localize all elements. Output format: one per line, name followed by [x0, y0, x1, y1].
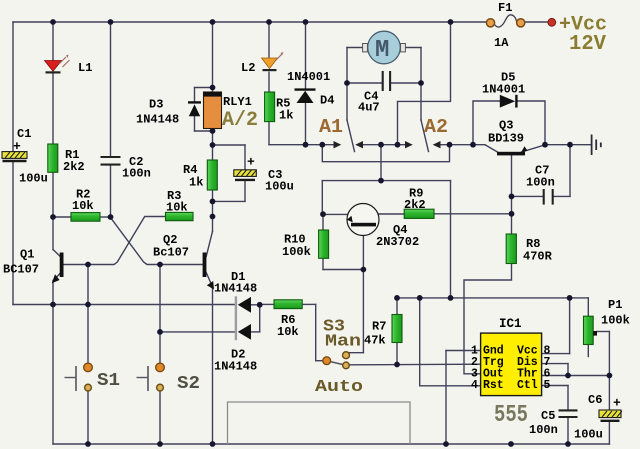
diode D2 [214, 324, 257, 374]
junction dots left section [50, 214, 263, 335]
wire R9 leads [379, 213, 512, 215]
wire Q3 collector branch x=511.5 [511, 156, 513, 234]
svg-text:C6: C6 [588, 393, 602, 407]
junction dots 555 area [394, 362, 612, 379]
svg-text:IC1: IC1 [499, 317, 522, 331]
pin labels 555 right [517, 345, 551, 392]
wire D1 anode lead [251, 303, 274, 305]
wire +12V top rail [13, 21, 549, 23]
wire C3 branch [213, 145, 246, 201]
wire cross-coupling to Q2 base [111, 218, 203, 265]
wire S1 branch x=88 [87, 265, 89, 445]
wire 555 pin4 reset branch [420, 298, 481, 386]
svg-text:+: + [247, 155, 255, 170]
svg-text:47k: 47k [364, 334, 386, 348]
wire 555 pin6 threshold line [542, 375, 610, 377]
wire Q1 emitter to ground rail [53, 273, 61, 445]
resistor R5 [265, 92, 294, 123]
svg-text:Ctl: Ctl [517, 379, 538, 392]
ground symbol [592, 135, 601, 156]
svg-text:100u: 100u [265, 180, 294, 194]
svg-text:S2: S2 [177, 374, 200, 394]
svg-text:2k2: 2k2 [404, 198, 426, 212]
svg-text:M: M [375, 37, 389, 64]
wire Q4 base / S3 Man branch [323, 227, 363, 353]
wire ground bus y=304 to D1 [13, 304, 235, 306]
capacitor C2 [101, 155, 151, 181]
svg-text:470R: 470R [523, 250, 553, 264]
wire D4 branch x=305.5 [305, 22, 307, 145]
wire C4 leads [347, 82, 421, 84]
wire contact cross loop [322, 145, 449, 162]
svg-text:100k: 100k [282, 245, 311, 259]
svg-text:1N4148: 1N4148 [136, 113, 179, 127]
wire C2 branch x=110.5 [110, 22, 112, 217]
capacitor C7 [526, 164, 555, 205]
resistor R6 [274, 300, 302, 339]
diode D3 [136, 98, 201, 127]
wire bottom ground rail [53, 443, 609, 445]
pin labels 555 left [471, 345, 504, 392]
switch S3 Man/Auto [315, 318, 363, 398]
wire R10 leads [322, 214, 324, 270]
relay contact A2 [405, 116, 448, 148]
resistor R8 [506, 234, 552, 264]
svg-text:10k: 10k [166, 201, 188, 215]
svg-text:C1: C1 [17, 127, 31, 141]
svg-text:L1: L1 [78, 61, 92, 75]
svg-text:Q1: Q1 [20, 248, 34, 262]
svg-text:R7: R7 [372, 320, 386, 334]
resistor R9 [404, 187, 434, 219]
wire +12V feed to pole [398, 22, 451, 145]
relay RLY1 coil [204, 92, 259, 132]
wire S2 branch x=160 [159, 265, 161, 445]
svg-text:555: 555 [494, 402, 528, 429]
wire relay branch x=212.5 [206, 22, 212, 257]
wire 555 pin5 to C5 [542, 386, 568, 411]
svg-text:A2: A2 [424, 116, 448, 138]
svg-text:D3: D3 [149, 98, 163, 112]
junction dots top rail [50, 19, 453, 25]
wire A2 lever [421, 120, 429, 152]
diode D4 [287, 70, 334, 108]
wire Q4 emitter lead [323, 214, 353, 222]
svg-text:4: 4 [471, 379, 478, 392]
svg-text:100u: 100u [19, 172, 48, 186]
svg-text:12V: 12V [569, 33, 606, 56]
wire R2 leads [53, 216, 111, 218]
wire R8 bottom to 555 pin3 [464, 264, 512, 374]
wire motor right lead [405, 48, 421, 121]
transistor Q2 [153, 233, 214, 290]
wire R7 leads [396, 298, 398, 365]
wire R6 to S3 pivot [302, 304, 323, 360]
wire left rail (C1 branch) [12, 22, 14, 305]
capacitor C1 [2, 127, 48, 186]
svg-text:1N4001: 1N4001 [482, 83, 525, 97]
svg-text:Auto: Auto [315, 378, 363, 397]
resistor R3 [166, 189, 194, 221]
wire pole distribution y=180.6 [322, 145, 450, 298]
svg-text:1A: 1A [494, 36, 509, 50]
svg-text:4u7: 4u7 [358, 101, 380, 115]
svg-text:100n: 100n [122, 167, 151, 181]
resistor R1 [48, 144, 85, 174]
wire L2/R5 branch x=269 [269, 22, 306, 145]
transistor Q3 [488, 119, 528, 156]
svg-text:L2: L2 [241, 61, 255, 75]
wire L1/R1/Q1 collector branch x=53 [53, 22, 61, 257]
svg-text:F1: F1 [498, 1, 512, 15]
wire Vcc bus y=297.9 [397, 298, 588, 316]
svg-text:10k: 10k [72, 199, 94, 213]
pushbutton S2 [137, 363, 201, 394]
svg-text:+: + [613, 396, 621, 411]
svg-text:10k: 10k [277, 325, 299, 339]
wire A1-A2 centre pole segment [363, 144, 405, 146]
wire C5 bottom lead [567, 417, 569, 444]
capacitor C5 [529, 409, 578, 437]
svg-text:RLY1: RLY1 [223, 95, 252, 109]
svg-text:5: 5 [544, 379, 551, 392]
IC IC1 555 timer [481, 317, 542, 429]
motor M1 [363, 31, 406, 64]
transistor Q4 [347, 204, 419, 250]
wire D3 loop [195, 88, 213, 132]
resistor R4 [183, 160, 217, 190]
svg-text:100n: 100n [529, 423, 558, 437]
wire Q1 base line [64, 217, 166, 265]
resistor R2 [71, 188, 100, 222]
wire P1 wiper to pin6 node [597, 332, 610, 376]
capacitor C6 [574, 393, 622, 442]
wire D1-D2 cathode bar [235, 296, 237, 340]
svg-text:1N4148: 1N4148 [214, 360, 257, 374]
diode D1 [214, 270, 257, 313]
LED L1 [45, 55, 93, 76]
pushbutton S1 [65, 363, 121, 391]
wire motor left lead [347, 48, 363, 121]
svg-text:100u: 100u [574, 428, 603, 442]
wire ground line to earth symbol [545, 144, 591, 146]
svg-text:Rst: Rst [483, 379, 504, 392]
capacitor C4 [358, 71, 390, 115]
wire Q4 collector lead [375, 214, 379, 222]
junction dots bottom rail [85, 441, 571, 447]
junction dots mid section [320, 178, 514, 273]
wire C6 leads [608, 376, 610, 445]
svg-text:2N3702: 2N3702 [376, 235, 419, 249]
svg-text:A/2: A/2 [222, 109, 258, 132]
svg-text:100k: 100k [601, 314, 630, 328]
wire P1 bottom stub [587, 345, 589, 357]
svg-text:C5: C5 [541, 409, 555, 423]
svg-text:S1: S1 [97, 371, 120, 391]
wire 555 pin8 Vcc lead [542, 298, 570, 354]
svg-text:BC107: BC107 [3, 263, 39, 277]
wire 555 pin1 ground lead [446, 351, 481, 445]
svg-text:Bc107: Bc107 [153, 246, 189, 260]
svg-text:1N4148: 1N4148 [214, 282, 257, 296]
potentiometer P1 [584, 298, 630, 345]
node +Vcc terminal [548, 14, 607, 57]
wire A1 fixed contact segment [306, 144, 334, 146]
wire 555 pin7 to pin6 [542, 364, 568, 376]
diode D5 [482, 71, 525, 108]
svg-text:1k: 1k [279, 109, 293, 123]
svg-text:1N4001: 1N4001 [287, 70, 330, 84]
wire A1 lever [347, 120, 355, 152]
relay contact A1 [319, 116, 363, 148]
wire Q3 emitter to ground [522, 145, 546, 152]
svg-text:1k: 1k [189, 176, 203, 190]
svg-text:100n: 100n [526, 176, 555, 190]
svg-text:2k2: 2k2 [63, 160, 85, 174]
capacitor C3 [234, 155, 294, 194]
wire D5 loop [473, 101, 545, 145]
wire D2 line from S2 branch [160, 305, 260, 332]
wire Q2 emitter to bottom rail [206, 273, 213, 445]
svg-text:Q3: Q3 [499, 119, 513, 133]
wire Q3 base lead [485, 145, 498, 152]
wire C7 leads [512, 145, 571, 197]
decorative output box [228, 402, 411, 444]
transistor Q1 [3, 248, 64, 284]
resistor R10 [282, 230, 329, 259]
junction dots Vcc bus [394, 295, 572, 301]
junction dots motor/C4 [344, 80, 424, 86]
svg-text:A1: A1 [319, 116, 343, 138]
svg-text:D4: D4 [320, 94, 334, 108]
wire trigger line S3 to pin2 [350, 363, 481, 366]
svg-text:BD139: BD139 [488, 132, 524, 146]
junction dots relay branch [210, 85, 216, 220]
junction dots contact line [303, 142, 573, 148]
svg-text:+: + [13, 139, 21, 154]
svg-text:Man: Man [325, 333, 361, 352]
resistor R7 [364, 315, 402, 348]
LED L2 [241, 52, 284, 75]
svg-text:P1: P1 [608, 298, 622, 312]
wire A2 right contact segment [441, 144, 486, 146]
fuse F1 [486, 1, 524, 50]
